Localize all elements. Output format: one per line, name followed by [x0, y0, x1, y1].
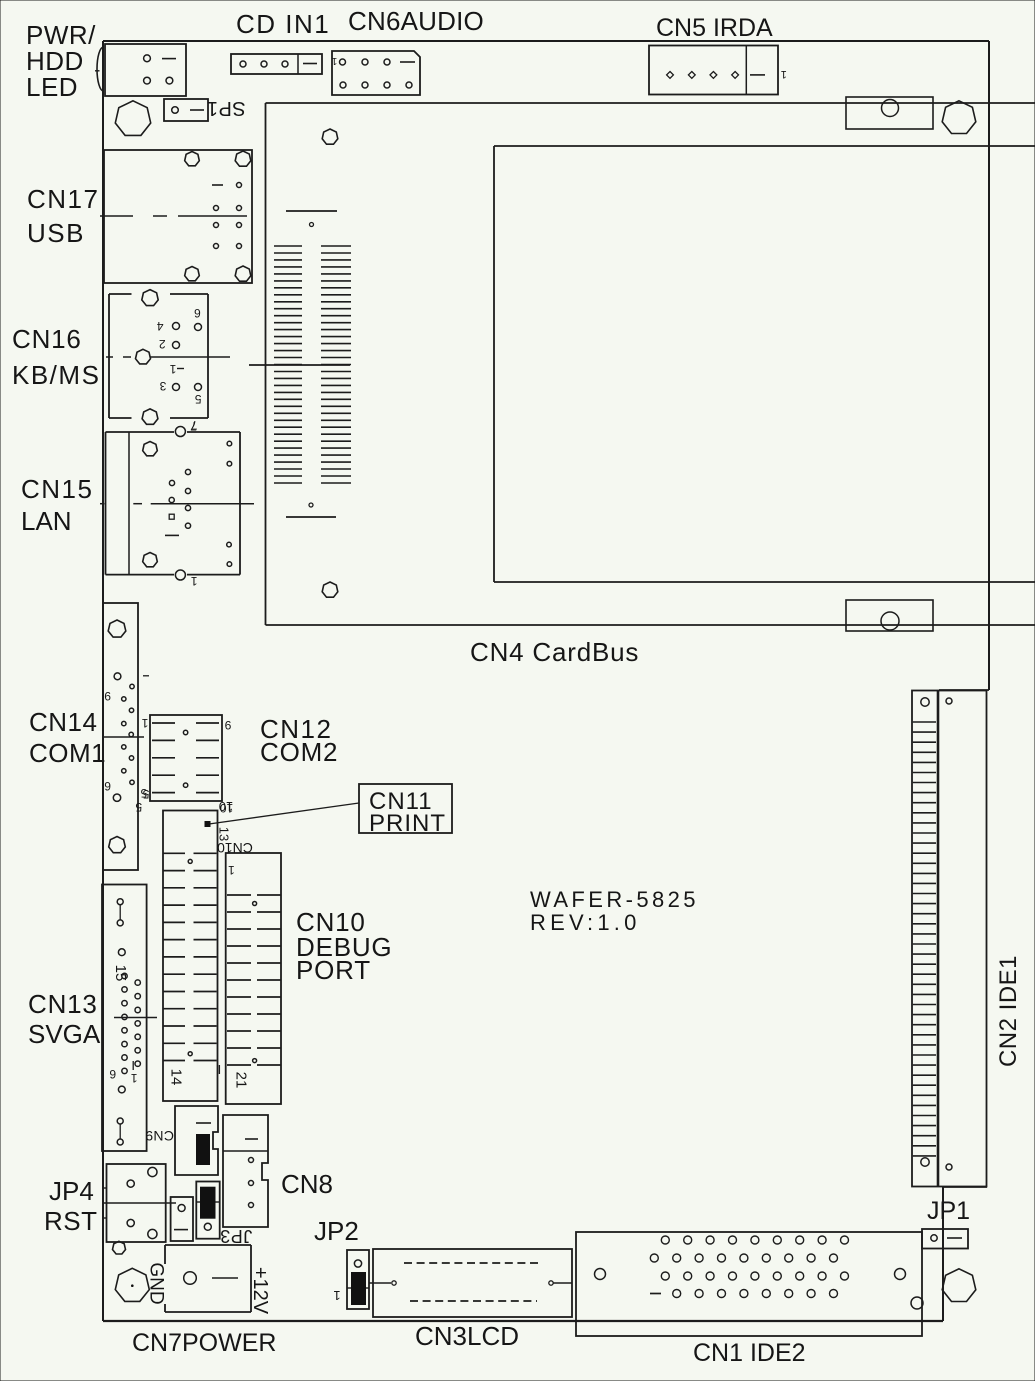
connector CN9: [145, 1106, 218, 1175]
CN4 connector pin comb left column: [274, 246, 302, 483]
jumper JP4: [102, 1164, 166, 1242]
node CN11 pin mark (filled): [205, 821, 211, 827]
label CN13 SVGA: [28, 989, 101, 1049]
connector CN7 POWER: [146, 1245, 272, 1315]
svg-text:CN6AUDIO: CN6AUDIO: [348, 6, 484, 36]
wire board outline: [103, 41, 989, 1321]
svg-text:LAN: LAN: [21, 506, 72, 536]
jumper JP3 left block: [171, 1197, 193, 1241]
svg-text:CN5 IRDA: CN5 IRDA: [656, 14, 773, 42]
wire JP4 centerline: [103, 1202, 176, 1204]
connector CN16 KB/MS: [109, 290, 208, 432]
svg-text:KB/MS: KB/MS: [12, 360, 100, 390]
svg-text:SP1: SP1: [206, 97, 245, 119]
svg-text:1: 1: [331, 55, 337, 66]
wire JP2 leader: [369, 1281, 396, 1285]
svg-text:9: 9: [104, 689, 111, 703]
svg-text:CN4 CardBus: CN4 CardBus: [470, 637, 639, 667]
svg-text:9: 9: [224, 718, 231, 732]
mounting hole bottom-left: [115, 1268, 149, 1301]
svg-text:JP4: JP4: [49, 1176, 94, 1206]
svg-text:CN2 IDE1: CN2 IDE1: [995, 955, 1022, 1067]
label CN15 LAN: [21, 474, 93, 536]
svg-text:4: 4: [157, 319, 164, 333]
label PWR/HDD LED: [26, 20, 96, 102]
jumper JP2: [333, 1250, 369, 1309]
label CN12 COM2: [260, 714, 338, 767]
CN4 card slot inner frame: [494, 146, 1035, 582]
connector CN17 USB: [104, 150, 252, 283]
CN4 mounting hole upper-left: [322, 129, 338, 144]
label JP4 RST: [44, 1176, 98, 1236]
svg-text:SVGA: SVGA: [28, 1019, 101, 1049]
connector CN13 SVGA: [102, 885, 147, 1152]
connector CN15 LAN: [106, 419, 241, 588]
svg-text:CN16: CN16: [12, 324, 82, 354]
speaker header SP1: [164, 97, 246, 121]
svg-text:1: 1: [141, 716, 148, 730]
mounting hole top-left: [115, 101, 150, 136]
svg-text:RST: RST: [44, 1206, 98, 1236]
connector CN10: [217, 840, 281, 1104]
svg-text:5: 5: [135, 800, 142, 814]
svg-text:COM2: COM2: [260, 737, 338, 767]
wire CN16 centerline extension through CN4 comb: [249, 364, 350, 366]
connector 14-pin header: [163, 811, 219, 1102]
svg-text:1: 1: [228, 863, 235, 877]
label CN10 DEBUG PORT: [296, 907, 392, 985]
svg-text:PRINT: PRINT: [369, 810, 446, 837]
label CN17 USB: [27, 184, 99, 248]
svg-text:CN3LCD: CN3LCD: [415, 1321, 519, 1351]
svg-text:10: 10: [219, 799, 233, 814]
svg-text:CN14: CN14: [29, 707, 97, 737]
connector CN12 COM2: [141, 715, 233, 815]
wire CN14 centerline: [103, 736, 144, 738]
svg-text:PORT: PORT: [296, 955, 371, 985]
mounting hole below JP4: [113, 1241, 126, 1254]
svg-text:CN10: CN10: [217, 840, 253, 856]
connector CN8: [223, 1115, 268, 1227]
mounting hole top-right: [942, 101, 976, 134]
svg-text:13: 13: [217, 827, 232, 841]
svg-text:CN17: CN17: [27, 184, 99, 214]
svg-text:6: 6: [194, 306, 201, 320]
CN4 pin mark bottom: [286, 503, 336, 517]
connector CN2 IDE1: [912, 691, 987, 1187]
svg-text:1: 1: [169, 362, 176, 376]
svg-text:5: 5: [194, 392, 201, 406]
label box CN11 PRINT: [359, 784, 452, 837]
connector CD IN1: [231, 54, 322, 74]
connector CN3 LCD: [373, 1249, 572, 1317]
label CN16 KB/MS: [12, 324, 100, 390]
wire CN15 centerline: [100, 503, 254, 505]
svg-text:CD IN1: CD IN1: [236, 9, 330, 39]
label CN14 COM1: [29, 707, 106, 768]
wire CN16 centerline: [106, 356, 230, 358]
connector CN5 IRDA: [649, 46, 787, 95]
svg-text:LED: LED: [26, 72, 78, 102]
CN4 mounting hole lower-left: [322, 582, 338, 597]
svg-text:2: 2: [159, 337, 166, 351]
CN4 connector pin comb right column: [321, 246, 351, 483]
svg-text:USB: USB: [27, 218, 85, 248]
svg-text:JP2: JP2: [314, 1216, 359, 1246]
svg-text:JP3: JP3: [220, 1226, 253, 1246]
svg-text:3: 3: [159, 379, 166, 393]
jumper JP3 right block with shunt: [196, 1182, 252, 1247]
CN4 top bracket box: [846, 97, 933, 129]
svg-text:5: 5: [142, 787, 149, 801]
label WAFER-5825 REV:1.0: [530, 887, 699, 935]
svg-text:6: 6: [104, 779, 111, 793]
svg-text:WAFER-5825: WAFER-5825: [530, 887, 699, 912]
jumper JP1: [922, 1229, 968, 1249]
svg-text:6: 6: [109, 1067, 116, 1081]
svg-text:CN15: CN15: [21, 474, 93, 504]
svg-text:+12V: +12V: [249, 1267, 271, 1315]
CN4 pin1 mark top: [286, 211, 337, 227]
svg-text:CN13: CN13: [28, 989, 98, 1019]
connector CN14 COM1: [103, 603, 149, 870]
svg-text:REV:1.0: REV:1.0: [530, 910, 641, 935]
svg-text:CN7POWER: CN7POWER: [132, 1329, 276, 1357]
svg-text:21: 21: [233, 1072, 250, 1089]
svg-text:14: 14: [168, 1069, 185, 1086]
svg-text:CN9: CN9: [145, 1128, 174, 1144]
connector CN4 CardBus outer frame: [266, 103, 1035, 625]
svg-text:CN1 IDE2: CN1 IDE2: [693, 1339, 806, 1367]
svg-text:1: 1: [333, 1288, 340, 1303]
svg-text:1: 1: [131, 1071, 138, 1085]
svg-text:1: 1: [191, 574, 198, 588]
wire CN11 leader: [209, 803, 359, 824]
svg-text:COM1: COM1: [29, 738, 106, 768]
connector CN6 AUDIO: [331, 51, 420, 95]
connector CN1 IDE2: [576, 1232, 923, 1336]
mounting hole bottom-right: [942, 1269, 976, 1302]
svg-text:CN8: CN8: [281, 1169, 333, 1199]
svg-text:1: 1: [781, 68, 787, 80]
wire CN17 centerline: [100, 215, 247, 217]
CN4 bottom bracket box: [846, 600, 933, 631]
wire CN13 centerline: [114, 1017, 157, 1019]
connector LED1 PWR/HDD LED: [95, 44, 186, 96]
svg-text:JP1: JP1: [927, 1197, 970, 1225]
svg-text:7: 7: [190, 419, 197, 433]
